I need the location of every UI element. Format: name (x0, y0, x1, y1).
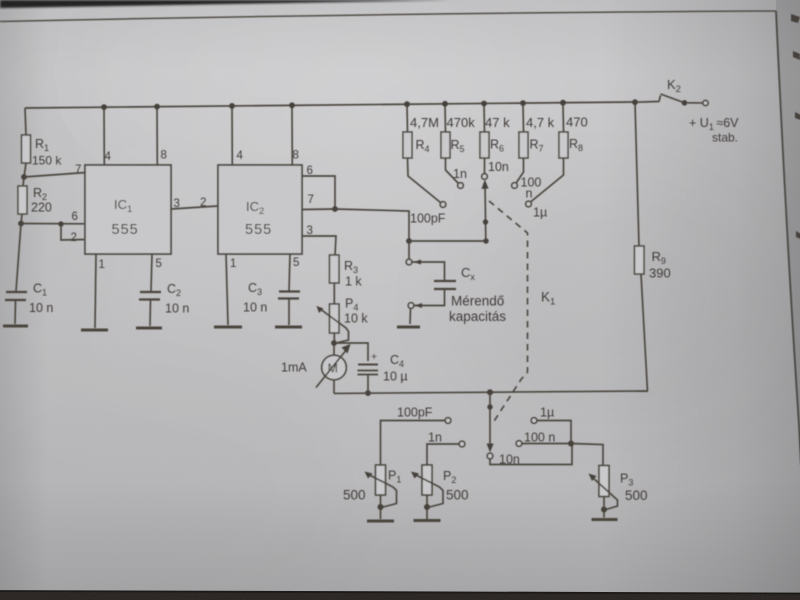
contact 10n upper (482, 174, 488, 180)
node on wiper line (483, 219, 488, 224)
node C4 bottom rail (365, 390, 371, 396)
wire IC1 pin4 (103, 107, 105, 165)
node pin2 stub junction (58, 221, 63, 226)
meter M 1mA (281, 344, 351, 388)
node rail R6 (481, 101, 487, 107)
ground C1 (3, 325, 28, 328)
capacitor C4 electrolytic (358, 351, 408, 393)
node pin7 net / Cx (406, 238, 412, 244)
label merendo kapacitas (449, 294, 506, 325)
wire C1 drop (16, 224, 21, 292)
wire R1 to node (24, 163, 26, 177)
op-amp IC2 (555 timer) (218, 165, 302, 254)
wire pin7 (24, 173, 86, 178)
selector wiper upper (arrow up) (482, 180, 489, 242)
ground P3 (592, 518, 618, 521)
contact 100n upper (512, 183, 518, 189)
label supply U1 (689, 116, 739, 145)
resistor R9 (635, 102, 671, 391)
node rail R5 (442, 101, 448, 107)
contact 1u upper (526, 201, 532, 207)
wire selector lower common (489, 392, 491, 450)
resistor R8 with range label 470 (559, 103, 588, 158)
wire P4 node to C4 (334, 343, 368, 361)
ground C3 (275, 326, 302, 329)
wire P4 to meter (333, 343, 335, 356)
ground P2 (414, 519, 441, 522)
node rail pin8 IC1 (154, 104, 160, 110)
switch K1 dashed coupling line (489, 201, 528, 422)
wire IC2 pin3 (302, 236, 336, 255)
wire IC1 pin1 to ground (95, 254, 96, 328)
potentiometer P3 (589, 466, 648, 518)
node rail R7 (520, 100, 526, 106)
frame right border (page edge) (776, 11, 800, 465)
dark sliver top edge (0, 0, 450, 8)
wire IC2 pin7 net (302, 209, 409, 241)
node rail K2 (632, 99, 638, 105)
wire 10n contact to P3 net (490, 444, 572, 465)
wire Cx bottom stub (414, 289, 445, 308)
switch K2 (635, 77, 708, 106)
resistor R6 with range label 47k (480, 104, 510, 159)
wire pin2 stub (61, 224, 84, 240)
wire pin6 (21, 223, 84, 225)
node bottom rail selector (487, 389, 493, 395)
node pin6/pin7 (332, 206, 338, 212)
node selector common bottom (483, 238, 488, 243)
wire 1u contact to node (537, 421, 571, 442)
wire IC2 pin6 loop (302, 176, 335, 209)
resistor R2 (18, 177, 52, 224)
capacitor C1 (5, 282, 53, 325)
terminal Cx bottom (408, 303, 414, 309)
wire 100n contact to node (522, 443, 568, 445)
contact 10n lower (487, 453, 493, 459)
capacitor Cx (434, 265, 475, 289)
resistor R5 with range label 470k (441, 104, 475, 158)
contact 1n lower (459, 441, 465, 447)
label 100 n upper (521, 176, 542, 201)
node rail pin4 IC2 (229, 103, 235, 109)
wire R7 to contact (517, 158, 524, 183)
wire IC1 pin3 to IC2 pin2 (171, 206, 218, 209)
potentiometer P1 (343, 465, 401, 519)
wire meter to bottom rail (333, 380, 335, 394)
wire 1n contact to P2 (427, 444, 459, 465)
wire IC2 pin1 to ground (226, 254, 228, 325)
wire R4 to contact (408, 158, 441, 203)
contact 1n upper (458, 183, 464, 189)
wire IC2 pin4 (231, 106, 233, 165)
wire 100pF contact to P1 (381, 421, 446, 466)
wire IC2 pin5 (289, 254, 290, 291)
region right of page border (darker page edge) (776, 0, 800, 455)
capacitor C2 (139, 282, 189, 326)
node rail R4 (404, 101, 410, 107)
resistor R4 with range label 4,7M (403, 104, 439, 158)
ground IC1 pin1 (81, 329, 108, 332)
node rail pin4 IC1 (101, 104, 107, 110)
ground P1 (367, 520, 394, 523)
wire R3 to P4 (333, 283, 335, 304)
node P3 net (568, 441, 574, 447)
node on lower common (487, 404, 492, 409)
capacitor C3 (243, 281, 300, 325)
node rail R8 (560, 100, 566, 106)
wire R5 to contact (446, 158, 459, 184)
op-amp IC1 (555 timer) (85, 165, 171, 254)
ground C2 (136, 327, 162, 330)
wire Cx top stub (412, 260, 445, 281)
wire IC1 pin5 (151, 254, 152, 291)
node R1/R2/pin7 (21, 174, 27, 180)
potentiometer P4 (317, 297, 369, 344)
wire R8 to contact (531, 158, 564, 202)
bottom rail (334, 391, 648, 393)
wire node to P3 (571, 444, 603, 466)
contact 1u lower (531, 418, 537, 424)
wire left drop to R1 (25, 108, 26, 135)
frame top border (0, 11, 776, 22)
potentiometer P2 (411, 465, 469, 519)
resistor R1 (22, 135, 63, 168)
wire Cx bottom to ground (409, 309, 412, 325)
wire Cx top terminal (408, 241, 410, 259)
node rail pin8 IC2 (289, 102, 295, 108)
terminal Cx top (406, 259, 412, 265)
resistor R3 (330, 255, 363, 289)
wire IC1 pin8 (156, 107, 158, 165)
top supply rail (25, 102, 634, 108)
contact 100pF lower (445, 418, 451, 424)
node P4 bottom (331, 340, 337, 346)
node R2/pin6/C1 (18, 221, 24, 227)
selector wiper lower (arrow down) (487, 444, 494, 453)
wire IC2 pin8 (291, 105, 293, 165)
bottom page edge dark band (0, 591, 800, 600)
wire pin7 net to selector common (409, 240, 486, 242)
contact 100n lower (516, 441, 522, 447)
ground Cx (397, 326, 420, 329)
right margin partial glyphs (791, 14, 800, 239)
wire R6 to contact 10n (484, 158, 486, 173)
ground IC2 pin1 (214, 326, 242, 329)
contact 100pF upper (440, 202, 446, 208)
resistor R7 with range label 4,7k (519, 103, 555, 158)
